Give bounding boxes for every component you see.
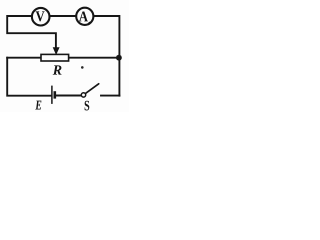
wire: battery to switch pivot [56, 95, 81, 97]
label S [85, 101, 90, 111]
wire: V to A [50, 15, 77, 17]
rheostat R body [41, 54, 69, 61]
label R [53, 65, 62, 74]
battery E negative plate (short thick) [53, 91, 56, 98]
wire: left vertical of battery loop and bottom wire to battery [7, 58, 51, 96]
wire: voltmeter branch left (top wire to V, down left side, across to slider stem) [7, 16, 56, 48]
switch S pivot contact [81, 93, 85, 97]
switch S lever [86, 84, 99, 94]
voltmeter U: circle V [32, 8, 50, 26]
stray speck [81, 66, 84, 69]
wire: rheostat row right segment to junction [69, 57, 120, 59]
battery E positive plate (long) [51, 86, 53, 104]
ammeter U: circle A [76, 8, 93, 25]
wire: rheostat row left segment [7, 57, 41, 59]
voltmeter label V [36, 11, 45, 21]
ammeter label A [79, 12, 88, 22]
ammeter comma mark [88, 22, 90, 26]
wire: A to top-right corner and right vertical down [93, 16, 119, 96]
label E [35, 101, 41, 110]
node junction dot (right vertical / rheostat wire) [116, 55, 122, 61]
rheostat slider arrowhead [53, 47, 60, 55]
wire: switch fixed contact to bottom-right corner [101, 95, 119, 97]
